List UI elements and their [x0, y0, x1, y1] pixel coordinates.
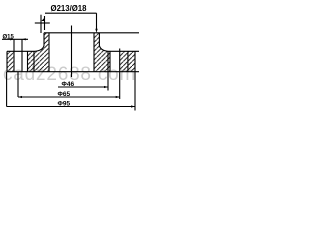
svg-text:Φ65: Φ65 — [58, 91, 71, 98]
arrow 65 right — [116, 96, 120, 98]
plate right edge — [134, 51, 136, 71]
arrow small blob — [41, 17, 45, 21]
dim 46 line — [58, 86, 108, 88]
dim46 right ext below plate — [107, 51, 109, 90]
dim 65 left ext — [17, 72, 19, 97]
top dim underline — [45, 12, 97, 14]
hatch left section — [7, 51, 14, 71]
hatch right outer section — [120, 51, 135, 71]
plate top right to edge — [108, 50, 139, 52]
arrow left dim left-pointing — [22, 38, 26, 40]
dim 65 line — [18, 96, 120, 98]
right hole ext tick above plate — [119, 49, 121, 52]
dim 95 line — [7, 106, 135, 108]
dim 65 right ext — [119, 72, 121, 99]
arrow 95 right — [131, 105, 135, 107]
centerline — [71, 26, 73, 78]
svg-text:Φ46: Φ46 — [62, 81, 75, 88]
left fillet — [35, 46, 44, 52]
plate bottom to edge — [7, 71, 139, 73]
top dim left vert — [40, 15, 42, 33]
svg-text:Φ95: Φ95 — [58, 100, 71, 107]
arrow 46 right — [104, 86, 108, 88]
left hole ext lines — [13, 40, 15, 52]
arrow 65 left — [18, 96, 22, 98]
left dim line — [2, 38, 28, 40]
neck outer right wall — [98, 33, 100, 46]
top dim right vert — [96, 13, 98, 30]
bore right wall — [93, 33, 95, 72]
arrow top leader down — [95, 29, 97, 33]
svg-text:Ø213/Ø18: Ø213/Ø18 — [51, 4, 88, 13]
arrow left dim right-pointing — [10, 38, 14, 40]
left hub base vertical — [33, 51, 35, 71]
right ext vertical 127.9 — [127, 51, 129, 71]
plate left edge — [6, 51, 8, 71]
hatch right section — [94, 33, 110, 72]
left ext vertical 27.5 — [27, 51, 29, 71]
right fillet — [99, 46, 108, 52]
dim 95 right ext — [134, 72, 136, 111]
left bolt hole edges — [13, 51, 15, 71]
right bolt hole edges — [109, 51, 111, 71]
bore left wall — [48, 33, 50, 72]
plate top left — [7, 50, 35, 52]
small dim line — [35, 22, 50, 24]
dim 95 left ext — [6, 72, 8, 107]
neck top face line to image edge — [44, 32, 139, 34]
neck outer left wall — [43, 33, 45, 46]
small vert 44.5 — [44, 16, 46, 30]
svg-text:Ø15: Ø15 — [3, 34, 15, 40]
